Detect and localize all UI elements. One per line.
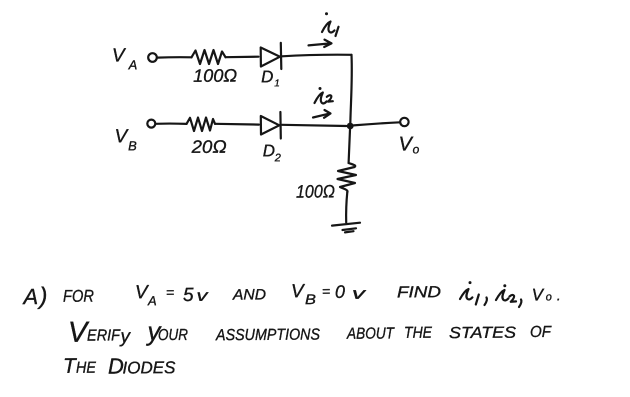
resistor R2 20ohm	[187, 118, 216, 132]
svg-text:5: 5	[183, 285, 194, 306]
wire node to Vo terminal	[354, 122, 401, 125]
svg-text:V: V	[291, 281, 306, 302]
svg-text:1: 1	[274, 78, 280, 89]
wire R3 to ground	[346, 192, 347, 223]
text line 3: THE DIODES	[63, 353, 176, 379]
label 100ohm (R3)	[296, 181, 335, 201]
svg-text:100Ω: 100Ω	[296, 181, 335, 201]
svg-text:ABOUT: ABOUT	[346, 325, 395, 342]
svg-text:B: B	[305, 291, 316, 307]
label VA	[112, 45, 137, 72]
text line 2: VERIFY YOUR ASSUMPTIONS ABOUT THE STATES OF	[68, 313, 552, 348]
svg-text:D: D	[261, 67, 273, 86]
wire VA terminal to R1	[158, 56, 192, 59]
wire R2 to D2	[215, 123, 259, 126]
wire vertical from corner to node	[350, 55, 352, 125]
wire node to R3	[349, 130, 350, 164]
svg-text:B: B	[128, 138, 137, 153]
svg-text:FIND: FIND	[397, 284, 442, 301]
svg-text:ASSUMPTIONS: ASSUMPTIONS	[215, 326, 320, 344]
wire D2 to node	[282, 125, 347, 126]
label D2	[263, 141, 281, 164]
svg-text:V: V	[532, 285, 545, 304]
wire VB terminal to R2	[156, 122, 187, 125]
svg-text:A: A	[21, 284, 38, 309]
svg-text:OF: OF	[530, 324, 552, 341]
svg-text:ERIF: ERIF	[87, 327, 121, 344]
svg-text:STATES: STATES	[449, 325, 516, 342]
svg-text:v: v	[352, 286, 367, 303]
diode D2	[261, 112, 281, 139]
terminal Vo	[400, 118, 408, 126]
resistor R1 100ohm	[192, 50, 226, 64]
svg-text:FOR: FOR	[63, 287, 94, 306]
arrow i1	[309, 40, 332, 47]
svg-text:=: =	[322, 283, 330, 299]
svg-text:=: =	[166, 284, 174, 300]
svg-text:20Ω: 20Ω	[191, 137, 227, 157]
svg-text:0: 0	[335, 282, 345, 302]
arrow i2	[313, 110, 331, 118]
svg-text:100Ω: 100Ω	[193, 66, 237, 86]
label VB	[114, 126, 137, 153]
svg-text:HE: HE	[76, 360, 96, 377]
diode D1	[261, 43, 282, 69]
node junction dot	[347, 123, 354, 130]
label Vo	[399, 133, 420, 156]
svg-text:y: y	[118, 326, 131, 347]
text i1, i2, Vo. in line 1	[460, 281, 561, 307]
svg-text:AND: AND	[232, 286, 266, 303]
ground symbol	[332, 223, 360, 233]
svg-text:V: V	[112, 45, 127, 66]
resistor R3 100ohm (vertical)	[338, 163, 357, 192]
label i1	[322, 12, 339, 36]
svg-text:.: .	[557, 287, 561, 304]
label i2	[315, 87, 333, 103]
wire D1 to top-right corner	[282, 55, 352, 57]
svg-text:A: A	[127, 57, 137, 72]
svg-text:OUR: OUR	[158, 327, 188, 344]
wire R1 to D1	[226, 56, 259, 59]
svg-text:v: v	[196, 288, 208, 305]
svg-text:A: A	[147, 293, 157, 308]
text line 1: A) FOR VA = 5v AND VB = 0v FIND i1, i2, Vo.	[21, 280, 441, 310]
terminal VB	[147, 120, 155, 128]
svg-text:THE: THE	[404, 325, 432, 342]
svg-text:o: o	[546, 291, 552, 303]
label 100ohm (R1)	[193, 66, 237, 86]
svg-text:D: D	[263, 141, 275, 160]
terminal VA	[148, 53, 157, 62]
svg-text:IODES: IODES	[122, 358, 176, 377]
svg-text:V: V	[399, 133, 414, 155]
label D1	[261, 67, 280, 89]
svg-text:2: 2	[274, 152, 281, 164]
label 20ohm (R2)	[191, 137, 227, 157]
svg-text:o: o	[413, 142, 420, 156]
